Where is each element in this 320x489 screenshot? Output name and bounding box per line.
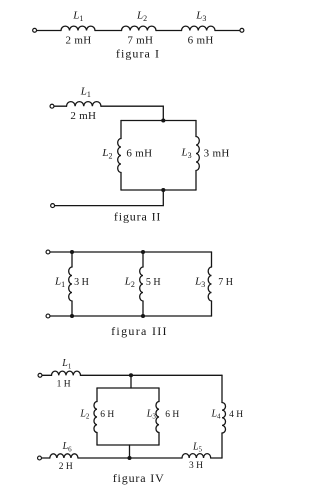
inductor L1 (figura II) (67, 102, 101, 107)
svg-text:L2: L2 (101, 147, 112, 161)
svg-text:figura III: figura III (111, 324, 168, 338)
inductor L1 (figura III) (69, 267, 72, 301)
wire (54, 105, 66, 107)
right edge upper wire (221, 375, 223, 402)
svg-text:L2: L2 (124, 275, 135, 289)
inductor L2 (121, 26, 155, 30)
svg-text:L3: L3 (180, 147, 191, 161)
svg-text:2 mH: 2 mH (66, 35, 92, 47)
inductor L3 (figura IV) (156, 402, 159, 433)
inductor L3 (182, 26, 216, 30)
inductor L5 (figura IV) (182, 454, 211, 458)
svg-text:7 H: 7 H (218, 277, 233, 288)
svg-text:L1: L1 (80, 85, 91, 99)
svg-text:L2: L2 (136, 9, 147, 23)
svg-text:3 mH: 3 mH (204, 148, 230, 160)
wire (37, 30, 61, 32)
node dot top of L1 branch (70, 250, 74, 254)
svg-text:6 H: 6 H (100, 410, 114, 420)
svg-text:L3: L3 (146, 408, 157, 420)
svg-text:5 H: 5 H (146, 277, 161, 288)
inductor L2 (figura III) (140, 267, 143, 301)
wire right branch upper (figura IV) (158, 388, 160, 402)
svg-text:L1: L1 (72, 9, 83, 23)
svg-text:L1: L1 (54, 276, 65, 290)
inductor L1 (61, 26, 95, 30)
wire left branch lower (figura IV) (96, 433, 98, 446)
inductor L6 (figura IV) (50, 454, 78, 458)
right edge lower wire (221, 433, 223, 458)
figura II : bottom-left terminal (51, 204, 55, 208)
top wire (50, 251, 211, 253)
wire to junction (101, 106, 163, 120)
inductor L2 (figura II) (118, 139, 121, 173)
wire right edge upper (211, 252, 213, 267)
node dot bottom of L2 branch (141, 314, 145, 318)
figura IV : top-left terminal (38, 373, 42, 377)
node junction top (figura IV) (129, 373, 133, 377)
svg-text:figura II: figura II (114, 209, 161, 223)
inductor L2 (figura IV) (94, 402, 97, 433)
wire left branch upper (figura IV) (96, 388, 98, 402)
figura IV : bottom-left terminal (38, 456, 42, 460)
inner box bottom wire (97, 444, 159, 446)
node junction bottom (figura IV) (127, 456, 131, 460)
bottom wire right (211, 457, 222, 459)
svg-text:1 H: 1 H (57, 379, 71, 389)
svg-text:7 mH: 7 mH (127, 35, 153, 47)
figura III : bottom-left terminal (46, 314, 50, 318)
inductor L1 (figura IV) (52, 371, 81, 375)
node junction top (161, 118, 165, 122)
figura III : top-left terminal (46, 250, 50, 254)
wire left branch lower (120, 173, 122, 191)
wire L2 branch upper (142, 252, 144, 267)
wire junction to bottom rail (55, 190, 164, 206)
svg-text:3 H: 3 H (74, 277, 89, 288)
bottom wire (50, 315, 211, 317)
svg-text:4 H: 4 H (229, 410, 243, 420)
figura II : top-left terminal (50, 104, 54, 108)
wire (95, 30, 122, 32)
svg-text:L4: L4 (210, 408, 221, 420)
svg-text:L3: L3 (195, 9, 206, 23)
node junction bottom (161, 188, 165, 192)
wire L2 branch lower (142, 301, 144, 316)
svg-text:L2: L2 (79, 408, 90, 420)
wire right branch lower (195, 171, 197, 191)
svg-text:L6: L6 (62, 441, 73, 453)
svg-text:6 mH: 6 mH (188, 35, 214, 47)
wire (42, 374, 51, 376)
wire (156, 30, 182, 32)
figura I : right terminal (240, 28, 244, 32)
inductor L3 (figura II) (196, 137, 199, 171)
inductor L3 (figura III) (208, 267, 211, 301)
svg-text:3 H: 3 H (189, 461, 203, 471)
bottom wire middle (78, 457, 182, 459)
wire parallel-box top (121, 120, 196, 122)
svg-text:6 mH: 6 mH (126, 148, 152, 160)
top wire (81, 374, 223, 376)
wire left branch upper (120, 121, 122, 139)
wire L1 branch upper (71, 252, 73, 267)
wire right edge lower (211, 301, 213, 316)
svg-text:6 H: 6 H (165, 410, 179, 420)
wire parallel-box bottom (121, 189, 196, 191)
inductor L4 (figura IV) (222, 403, 226, 434)
bottom wire left (42, 457, 50, 459)
node dot top of L2 branch (141, 250, 145, 254)
figura I : left terminal (33, 28, 37, 32)
svg-text:2 mH: 2 mH (70, 110, 96, 122)
svg-text:2 H: 2 H (59, 462, 73, 472)
wire right branch upper (195, 121, 197, 137)
wire L1 branch lower (71, 301, 73, 316)
wire right branch lower (figura IV) (158, 433, 160, 446)
svg-text:L3: L3 (194, 275, 205, 289)
wire (215, 30, 240, 32)
svg-text:figura IV: figura IV (113, 471, 165, 485)
svg-text:L1: L1 (61, 358, 72, 370)
wire stub to bottom rail (129, 445, 131, 458)
node dot bottom of L1 branch (70, 314, 74, 318)
wire stub to inner box (130, 375, 132, 388)
inner box top wire (97, 387, 159, 389)
svg-text:figura I: figura I (116, 47, 160, 61)
svg-text:L5: L5 (192, 441, 203, 453)
